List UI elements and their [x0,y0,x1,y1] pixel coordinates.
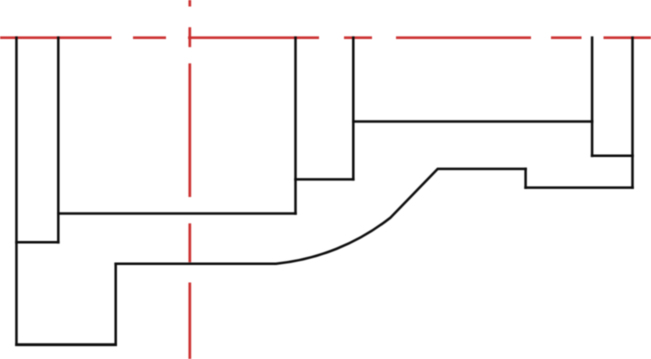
outline: long middle horizontal [352,120,593,123]
outline: right inner vertical [591,36,594,157]
outline: base right vertical [114,263,117,347]
horizontal centerline (red dash-dot) [0,36,651,39]
outline: center vertical [352,36,355,180]
outline: upper-left long horizontal [57,212,297,215]
outline: bottom-right horizontal [524,186,634,189]
outline: left step horizontal [15,241,59,244]
outline: small step vertical [524,168,527,189]
outline: center-left vertical [294,36,297,214]
outline: right step horizontal [591,155,634,158]
outline: tangent curve and 45-degree slope [276,169,438,264]
outline: bottom-left base horizontal [15,343,117,346]
outline: far-right vertical [631,36,634,189]
outline: center step horizontal [294,178,354,181]
vertical centerline (red dash-dot) [188,0,191,359]
outline: far-left outer vertical [15,36,18,346]
outline: left inner vertical [57,36,60,243]
outline: lower horizontal before curve [114,262,276,265]
outline: shelf horizontal [437,168,527,171]
